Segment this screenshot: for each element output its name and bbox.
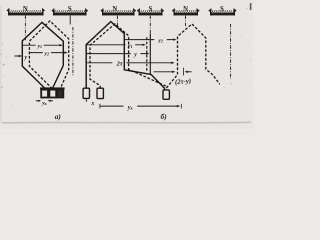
- dimension y1 row (b): [86, 44, 144, 46]
- pole S3 end hooks: [209, 10, 236, 16]
- wave section 2 dashed: [166, 24, 219, 88]
- pole N2 end hooks: [101, 10, 136, 16]
- pole N1 bracket bar: [8, 13, 44, 16]
- slot pair near S axis dashed: [146, 37, 148, 71]
- pole axis N3 dash-dot: [185, 16, 187, 28]
- pole S2 end hooks: [137, 10, 163, 16]
- grain layer: [0, 0, 253, 129]
- slot mate of side 1 dashed: [90, 24, 168, 89]
- dimension y row (b): [86, 53, 148, 55]
- pole S3 hatching: [212, 10, 234, 13]
- coil 1 solid hexagon: [22, 22, 63, 89]
- dimension y1 row: [23, 44, 62, 46]
- pole S2 hatching: [140, 10, 161, 13]
- wave section 1 solid: [86, 22, 164, 90]
- commutator segment 1: [41, 90, 48, 98]
- commutator segment 3 (dark): [57, 90, 63, 98]
- label x under segment 4: [85, 99, 87, 102]
- pole N1 hatching: [10, 10, 43, 13]
- dimension yk row (b): [99, 104, 101, 109]
- paper background: [0, 0, 253, 129]
- pole N3 hatching: [175, 10, 197, 13]
- commutator segment 2: [49, 90, 56, 98]
- scan noise overlay: [0, 0, 1, 1]
- pole N3 bracket bar: [174, 13, 199, 16]
- extension tick for 2tau end: [182, 68, 184, 76]
- pole axis S3 dash-dot: [230, 24, 232, 79]
- pole N2 bracket bar: [102, 13, 135, 16]
- dimension (2tau-y) arrows: [154, 71, 175, 73]
- pole N3 end hooks: [172, 10, 199, 16]
- pole N1 end hooks: [7, 9, 45, 15]
- dimension y2 row (b): [125, 39, 176, 41]
- pole S1 hatching: [55, 10, 86, 13]
- pole axis S2 dash-dot: [149, 16, 151, 34]
- commutator segment 4: [83, 88, 89, 98]
- dimension y arrow: [14, 55, 21, 57]
- right edge artifact: [250, 3, 252, 10]
- pole N2 hatching: [104, 10, 134, 13]
- pole S1 bracket bar: [53, 13, 87, 16]
- pole axis N1 dash-dot: [24, 16, 26, 41]
- commutator top bar a: [40, 87, 65, 89]
- left page edge shading: [0, 6, 2, 122]
- dimension yk (a): [36, 100, 40, 102]
- faint page line: [2, 121, 251, 124]
- dimension 2tau row (b): [86, 62, 173, 64]
- pole axis N2 dash-dot: [116, 16, 118, 26]
- commutator segment 6: [163, 90, 169, 99]
- pole axis S1 dash-dot: [69, 16, 71, 25]
- pole S1 end hooks: [52, 10, 88, 16]
- pole S2 bracket bar: [139, 13, 163, 16]
- coil 2 dashed hexagon: [29, 21, 68, 89]
- pole S3 bracket bar: [210, 13, 235, 16]
- scan speckles: [1, 8, 251, 105]
- commutator segment 5: [97, 88, 103, 98]
- dimension y2 row: [30, 52, 67, 54]
